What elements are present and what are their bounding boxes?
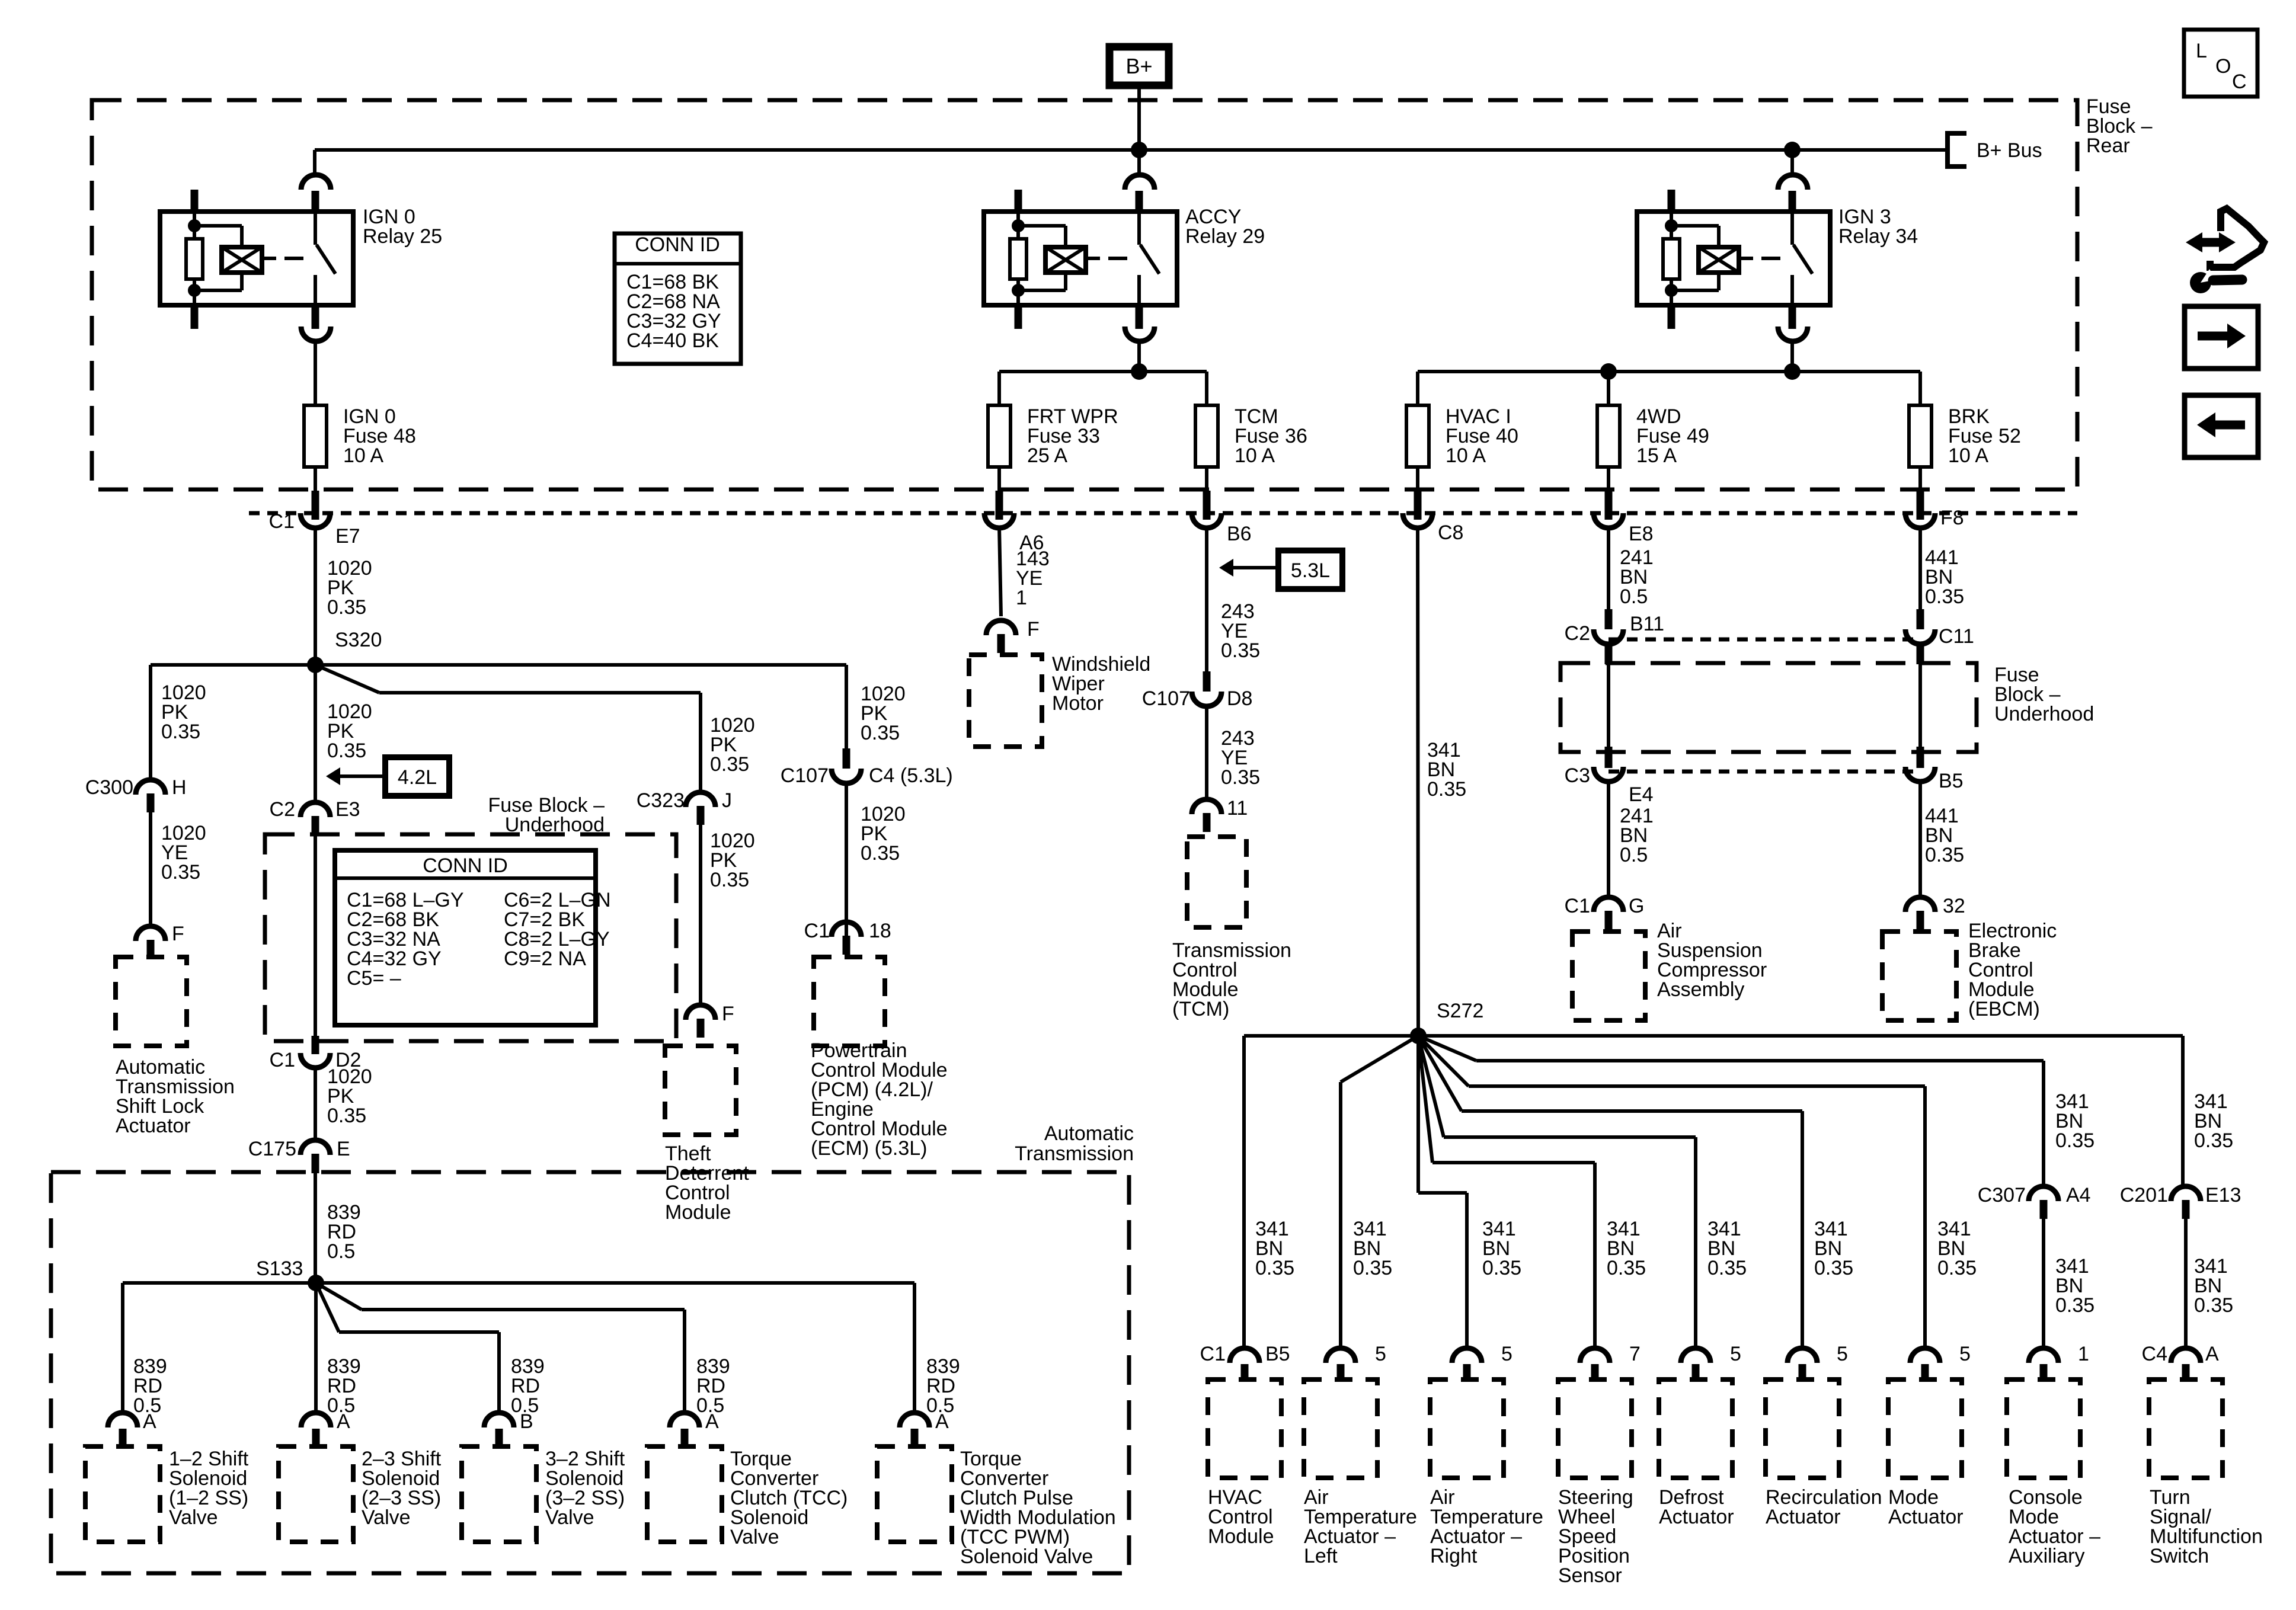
svg-text:Valve: Valve xyxy=(730,1526,779,1548)
svg-text:CONN ID: CONN ID xyxy=(635,233,720,256)
svg-text:H: H xyxy=(172,776,187,799)
svg-text:15 A: 15 A xyxy=(1636,444,1677,467)
svg-text:0.5: 0.5 xyxy=(1620,844,1648,866)
svg-text:B5: B5 xyxy=(1265,1343,1290,1365)
svg-text:0.5: 0.5 xyxy=(1620,585,1648,608)
svg-text:5: 5 xyxy=(1837,1343,1848,1365)
svg-text:E: E xyxy=(337,1138,350,1160)
svg-text:0.35: 0.35 xyxy=(2194,1129,2233,1152)
svg-text:Rear: Rear xyxy=(2086,135,2130,157)
svg-text:E7: E7 xyxy=(335,525,360,548)
svg-text:C1: C1 xyxy=(1200,1343,1226,1365)
svg-text:Underhood: Underhood xyxy=(505,814,605,836)
svg-text:Auxiliary: Auxiliary xyxy=(2009,1545,2084,1567)
svg-text:10 A: 10 A xyxy=(343,444,383,467)
svg-text:C2: C2 xyxy=(270,798,295,821)
svg-text:C175: C175 xyxy=(248,1138,296,1160)
svg-text:0.35: 0.35 xyxy=(1221,766,1260,789)
svg-text:0.5: 0.5 xyxy=(327,1240,355,1263)
svg-text:0.35: 0.35 xyxy=(327,1105,366,1127)
svg-text:C107: C107 xyxy=(781,764,829,787)
svg-text:0.35: 0.35 xyxy=(861,722,900,744)
svg-text:E13: E13 xyxy=(2205,1184,2241,1206)
svg-text:0.5: 0.5 xyxy=(926,1394,954,1417)
svg-text:F: F xyxy=(172,923,184,945)
svg-text:G: G xyxy=(1629,895,1644,917)
svg-text:J: J xyxy=(722,789,732,812)
svg-text:10 A: 10 A xyxy=(1446,444,1486,467)
svg-text:0.35: 0.35 xyxy=(2055,1294,2094,1317)
svg-text:0.35: 0.35 xyxy=(1427,778,1466,801)
svg-text:0.35: 0.35 xyxy=(710,869,749,891)
svg-text:C1: C1 xyxy=(1565,895,1590,917)
svg-text:C4: C4 xyxy=(2142,1343,2167,1365)
svg-text:O: O xyxy=(2215,55,2231,78)
svg-text:0.35: 0.35 xyxy=(1482,1257,1521,1279)
svg-text:11: 11 xyxy=(1227,797,1248,820)
svg-text:0.35: 0.35 xyxy=(1707,1257,1747,1279)
svg-text:C323: C323 xyxy=(637,789,685,812)
svg-text:Left: Left xyxy=(1304,1545,1338,1567)
svg-text:Underhood: Underhood xyxy=(1994,703,2094,725)
svg-text:B+: B+ xyxy=(1125,54,1152,78)
svg-text:Valve: Valve xyxy=(169,1506,218,1529)
svg-text:Actuator: Actuator xyxy=(1888,1506,1964,1528)
svg-text:C11: C11 xyxy=(1939,625,1974,648)
svg-text:0.35: 0.35 xyxy=(1255,1257,1294,1279)
svg-text:18: 18 xyxy=(869,920,891,942)
svg-text:Relay 25: Relay 25 xyxy=(363,225,442,248)
svg-text:B+ Bus: B+ Bus xyxy=(1977,139,2042,162)
svg-text:(EBCM): (EBCM) xyxy=(1968,998,2040,1020)
svg-text:Sensor: Sensor xyxy=(1558,1564,1622,1587)
svg-text:E3: E3 xyxy=(335,798,360,821)
svg-text:B11: B11 xyxy=(1630,613,1664,635)
svg-text:C1: C1 xyxy=(270,1049,295,1071)
svg-text:C107: C107 xyxy=(1142,687,1190,710)
svg-text:S133: S133 xyxy=(256,1257,303,1280)
svg-text:0.5: 0.5 xyxy=(327,1394,355,1417)
svg-text:L: L xyxy=(2196,40,2207,62)
svg-text:F: F xyxy=(1027,618,1040,641)
svg-text:C300: C300 xyxy=(85,776,133,799)
svg-text:Actuator: Actuator xyxy=(1766,1506,1841,1528)
svg-text:5.3L: 5.3L xyxy=(1291,559,1330,582)
svg-text:B5: B5 xyxy=(1939,770,1964,792)
svg-text:E8: E8 xyxy=(1629,523,1654,545)
svg-text:C5= –: C5= – xyxy=(347,967,401,990)
svg-text:4.2L: 4.2L xyxy=(398,766,437,789)
svg-text:Motor: Motor xyxy=(1052,692,1104,715)
svg-text:C2: C2 xyxy=(1565,622,1590,645)
svg-text:0.35: 0.35 xyxy=(1937,1257,1977,1279)
svg-text:Module: Module xyxy=(1208,1525,1274,1548)
svg-text:0.35: 0.35 xyxy=(161,861,200,884)
svg-text:0.5: 0.5 xyxy=(511,1394,539,1417)
svg-text:0.35: 0.35 xyxy=(1221,639,1260,662)
svg-text:A: A xyxy=(2205,1343,2219,1365)
svg-text:(ECM) (5.3L): (ECM) (5.3L) xyxy=(811,1137,927,1160)
svg-text:25 A: 25 A xyxy=(1027,444,1067,467)
svg-text:C1: C1 xyxy=(269,510,295,533)
svg-text:5: 5 xyxy=(1375,1343,1386,1365)
svg-text:Right: Right xyxy=(1430,1545,1478,1567)
svg-text:C307: C307 xyxy=(1978,1184,2026,1206)
svg-text:5: 5 xyxy=(1959,1343,1971,1365)
svg-text:C201: C201 xyxy=(2120,1184,2168,1206)
svg-text:B6: B6 xyxy=(1227,523,1252,545)
svg-text:0.35: 0.35 xyxy=(161,721,200,743)
svg-text:5: 5 xyxy=(1730,1343,1741,1365)
svg-text:10 A: 10 A xyxy=(1235,444,1275,467)
svg-text:0.35: 0.35 xyxy=(2055,1129,2094,1152)
svg-text:Relay 29: Relay 29 xyxy=(1185,225,1265,248)
svg-text:C9=2 NA: C9=2 NA xyxy=(504,948,586,970)
svg-text:C4 (5.3L): C4 (5.3L) xyxy=(869,764,953,787)
svg-text:5: 5 xyxy=(1501,1343,1512,1365)
svg-text:0.35: 0.35 xyxy=(327,740,366,762)
svg-text:1: 1 xyxy=(1016,587,1027,609)
svg-text:CONN ID: CONN ID xyxy=(423,854,508,877)
svg-text:0.35: 0.35 xyxy=(710,753,749,776)
svg-text:10 A: 10 A xyxy=(1948,444,1988,467)
svg-text:Automatic: Automatic xyxy=(1044,1122,1134,1145)
svg-text:S320: S320 xyxy=(335,629,382,651)
svg-text:1: 1 xyxy=(2078,1343,2089,1365)
svg-text:0.35: 0.35 xyxy=(1353,1257,1392,1279)
svg-text:Valve: Valve xyxy=(545,1506,594,1529)
svg-text:0.5: 0.5 xyxy=(696,1394,724,1417)
svg-text:0.35: 0.35 xyxy=(1814,1257,1853,1279)
svg-text:D8: D8 xyxy=(1227,687,1252,710)
svg-text:(TCM): (TCM) xyxy=(1172,998,1229,1020)
svg-text:Actuator: Actuator xyxy=(116,1115,191,1137)
svg-text:Module: Module xyxy=(665,1201,731,1224)
svg-text:0.35: 0.35 xyxy=(1925,585,1964,608)
svg-text:Transmission: Transmission xyxy=(1015,1142,1134,1165)
svg-text:7: 7 xyxy=(1629,1343,1641,1365)
svg-text:F8: F8 xyxy=(1940,507,1964,529)
svg-text:0.35: 0.35 xyxy=(1925,844,1964,866)
svg-text:C8: C8 xyxy=(1438,521,1463,544)
svg-text:C: C xyxy=(2232,71,2247,93)
svg-text:S272: S272 xyxy=(1437,1000,1483,1022)
svg-text:F: F xyxy=(722,1003,734,1025)
svg-text:Assembly: Assembly xyxy=(1657,978,1744,1001)
svg-text:C3: C3 xyxy=(1565,764,1590,787)
svg-text:32: 32 xyxy=(1943,895,1965,917)
svg-text:E4: E4 xyxy=(1629,783,1654,806)
svg-text:C1: C1 xyxy=(804,920,830,942)
svg-text:A4: A4 xyxy=(2066,1184,2091,1206)
svg-text:Valve: Valve xyxy=(362,1506,411,1529)
svg-text:Relay 34: Relay 34 xyxy=(1838,225,1918,248)
svg-text:0.35: 0.35 xyxy=(2194,1294,2233,1317)
svg-text:0.5: 0.5 xyxy=(133,1394,161,1417)
svg-text:0.35: 0.35 xyxy=(861,842,900,865)
svg-text:Solenoid Valve: Solenoid Valve xyxy=(960,1545,1093,1568)
svg-text:Switch: Switch xyxy=(2150,1545,2209,1567)
svg-text:0.35: 0.35 xyxy=(1607,1257,1646,1279)
svg-text:Actuator: Actuator xyxy=(1659,1506,1734,1528)
svg-text:C4=40 BK: C4=40 BK xyxy=(626,329,719,352)
svg-text:0.35: 0.35 xyxy=(327,596,366,619)
